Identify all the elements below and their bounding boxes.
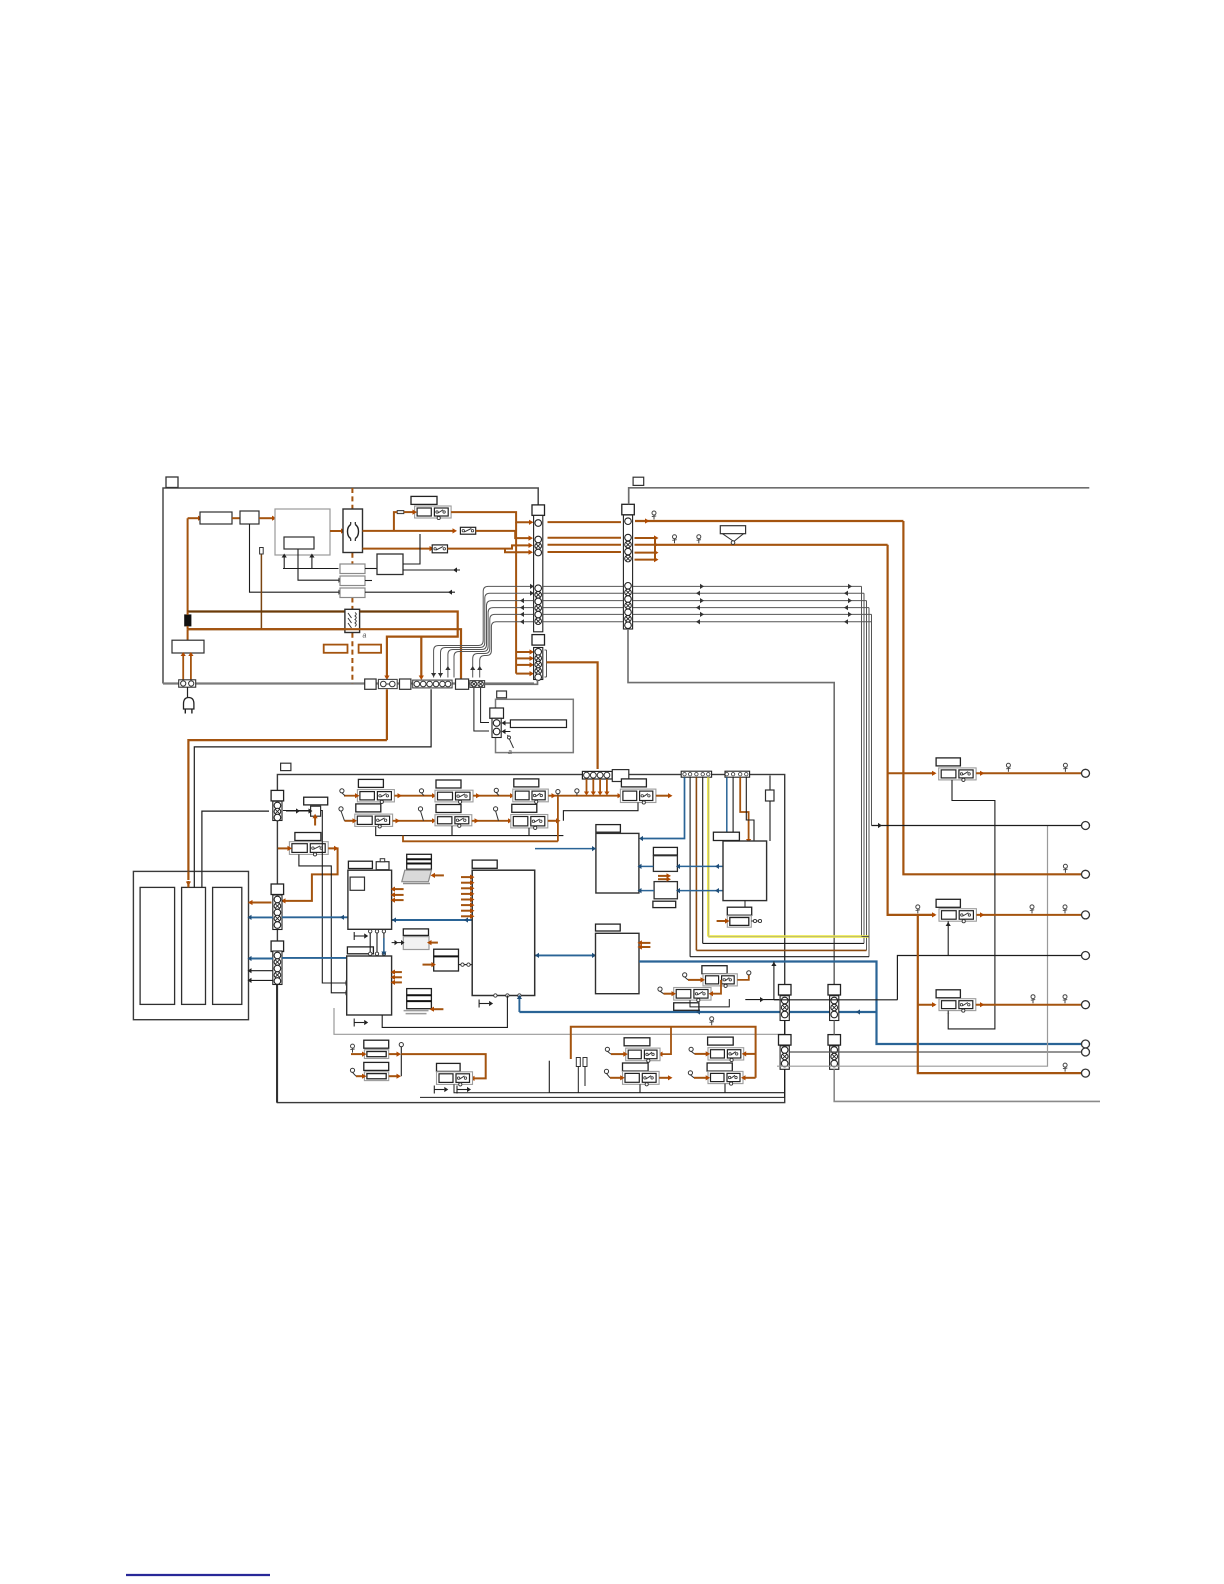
fuse F1 with label: [411, 496, 437, 504]
wire gray C2 bottom run: [628, 629, 834, 985]
module M2b (lower): [596, 933, 640, 993]
wire blue L1 to module C: [392, 919, 473, 921]
fuse F6: [356, 804, 381, 812]
blue arrow into L2: [383, 938, 385, 953]
wire riser into F1: [394, 512, 397, 531]
wire black terminal 825: [872, 825, 1082, 827]
fuse FE: [623, 1063, 649, 1071]
wire blue M2-IB: [639, 890, 654, 892]
terminal circles: [1082, 769, 1090, 777]
module L2: [347, 956, 392, 1015]
orange arrows into C left: [461, 876, 471, 878]
fusible element ahead of F1: [397, 511, 404, 514]
wire blue B2 down to M4: [726, 777, 728, 839]
wire black strip-A to battery: [202, 811, 269, 887]
strip B (left edge): [271, 884, 284, 895]
wire orange drop from row1: [557, 796, 559, 842]
strip D2 (outer): [828, 985, 841, 996]
wire brown B1 down: [695, 777, 697, 950]
fusible links small: [576, 1058, 580, 1067]
connector bar B0: [582, 771, 612, 779]
battery cell 3: [213, 887, 242, 1004]
battery pack outer box: [133, 871, 248, 1019]
resistor R1 top right: [769, 776, 771, 791]
wire bank outputs right: [365, 591, 455, 593]
wire F15 control: [947, 1010, 949, 1013]
interstage box IB: [654, 882, 677, 899]
interlock switch: [508, 735, 514, 748]
wire orange B2 down: [740, 777, 748, 839]
strip D (box right edge): [779, 985, 792, 996]
substrip feed stubs: [516, 651, 530, 653]
wire F12 control: [690, 999, 729, 1007]
wire A1-A2: [232, 517, 240, 519]
inner CPU box: [284, 537, 314, 549]
wire bus B drop to connector box: [188, 629, 461, 679]
wire black horizontal 943: [703, 942, 864, 944]
interstage box IA: [653, 847, 677, 855]
wire FH node: [400, 1047, 402, 1077]
svg-text:a: a: [363, 633, 367, 640]
wire orange collector y841: [403, 836, 558, 842]
wire F12 right feed: [713, 980, 721, 994]
module M2 (upper): [596, 833, 639, 893]
svg-text:a: a: [508, 749, 512, 756]
wire orange ring bottom: [571, 1027, 756, 1078]
charge port module: [172, 640, 204, 653]
capacitor block CB3: [407, 989, 432, 1009]
vertical sense wire with element: [260, 554, 262, 629]
six signal wires C1-C2: [543, 585, 623, 587]
strip E2 (outer): [828, 1035, 841, 1046]
wire F13 to terminal: [976, 772, 1081, 774]
wire blue riser into C: [518, 996, 520, 1013]
bracket symbols: [353, 932, 355, 940]
wire black B1 down: [689, 777, 691, 957]
wire K2 branch to strip: [448, 545, 529, 548]
wires from P6 to interlock: [474, 688, 489, 731]
wire yellow B1 down: [707, 777, 709, 936]
orange service boxes: [324, 645, 348, 653]
wire K1 to connector strip: [476, 531, 529, 538]
wire orange C1-C2 y538: [548, 537, 622, 539]
wire gray 1052 to terminal: [790, 1051, 1082, 1053]
wire F14 control: [947, 921, 949, 955]
fuse F11 mid: [702, 966, 727, 974]
wire blue M2b to terminal: [639, 962, 1082, 1045]
wire orange right drop 903: [903, 521, 1081, 874]
fuse FF: [708, 1037, 734, 1045]
wire black return to battery: [194, 689, 431, 887]
fuse FD: [624, 1038, 650, 1046]
connector bar B2: [725, 771, 750, 777]
strip links vertical: [784, 1021, 786, 1035]
arrows up into control block bottom: [283, 557, 285, 569]
fuse F7: [436, 805, 461, 813]
interlock wires: [504, 722, 511, 724]
wire orange right drop 887: [888, 545, 935, 915]
fuse F14 right: [936, 899, 960, 907]
fuse F12 mid: [674, 988, 711, 1001]
wire black B2 down: [732, 777, 734, 841]
fuse F3: [436, 780, 461, 788]
wire F11 out up: [737, 975, 749, 980]
stair corner joins: [862, 936, 869, 938]
six signal wires C1 left fan: [434, 586, 534, 677]
substrip C1b: [534, 648, 543, 680]
wire battery black pins: [249, 970, 274, 972]
wire blue strip B to module L1: [282, 916, 348, 918]
relay K2: [432, 545, 447, 553]
wire transformer to relay K1: [363, 530, 455, 532]
wire control to transformer: [330, 530, 343, 532]
AC inlet connector: [179, 680, 196, 687]
bar B0 side box: [612, 770, 629, 782]
main orange bus riser: [187, 518, 189, 611]
fuse FH left bottom: [364, 1040, 389, 1048]
wire gray 1066 up right: [777, 826, 1048, 1067]
wire A branch 2 drop: [420, 637, 422, 676]
wire transformer lower tap to relay K2: [363, 548, 432, 550]
orange merge bracket right of C2: [635, 537, 656, 539]
wire top frame: [629, 488, 1090, 505]
wire ring to FD: [661, 1027, 671, 1054]
wire orange run 2: [655, 544, 888, 546]
wire bank1 to module A4: [365, 568, 377, 570]
wire strip A control: [283, 811, 346, 984]
interlock connector cap: [490, 708, 504, 718]
six signal wires C2 to right stair: [633, 585, 862, 587]
fuse F13 right: [936, 758, 960, 766]
capacitor block CB1: [407, 854, 432, 869]
wire F4-F5: [548, 795, 620, 797]
module C (central): [472, 870, 535, 995]
fuse F2: [358, 779, 383, 787]
wire stair to terminal 825: [871, 614, 873, 825]
fuse F5: [621, 779, 646, 787]
black control wires to resistor bank: [250, 524, 339, 592]
fusible link (black): [185, 615, 191, 626]
wire orange feed to module A1: [188, 517, 200, 519]
fuse F8: [512, 804, 537, 812]
relay K1: [460, 527, 475, 534]
fuse row1 wire: [344, 795, 357, 797]
wire bottom left verticals: [420, 1093, 785, 1098]
fuse F10 below M3: [727, 907, 751, 915]
wire F9 to strip B: [286, 848, 338, 901]
contactor K3: [345, 609, 360, 632]
label square J4: [281, 763, 291, 770]
wire orange C1-C2 link y522: [548, 521, 622, 523]
wire gray bottom long: [834, 1069, 1100, 1101]
resistor bank box 3: [340, 588, 365, 598]
wire contactor output: [360, 610, 430, 612]
wire bus B: [188, 628, 345, 630]
fuse FI: [437, 1063, 461, 1071]
connector bar B1: [681, 771, 711, 777]
fuse F15 right: [936, 990, 960, 998]
wire orange C1-C2 y545: [548, 544, 622, 546]
module A4: [377, 554, 403, 575]
stair verticals down: [861, 586, 863, 936]
fuse F9 standalone: [295, 833, 321, 841]
wire orange FH to FI: [401, 1054, 485, 1078]
battery feed stubs inside box: [187, 871, 189, 880]
wire M3 bottom: [744, 901, 746, 907]
wire F15 to terminal: [976, 1004, 1082, 1006]
wire black terminal 955: [897, 956, 1081, 1000]
sensor funnel symbol: [720, 526, 745, 534]
pins L1-L2: [369, 929, 371, 956]
wire black B2 down 2: [746, 777, 754, 841]
battery cell 2: [182, 887, 206, 1004]
wire orange C1-C2 y552: [548, 551, 622, 553]
orange arrow pair IA-IB: [658, 875, 668, 877]
gray baseline of charger box: [163, 682, 534, 684]
wire blue long 1012: [519, 1011, 876, 1013]
strip C (left edge): [271, 941, 284, 952]
wire battery to strip B orange: [249, 902, 272, 904]
wire F6-F7: [393, 820, 435, 822]
wire bus B to charge port box: [187, 629, 189, 640]
resistor bank box 2: [340, 576, 365, 586]
power control outer box: [277, 775, 784, 1103]
orange arrows L1 right: [394, 888, 404, 890]
strip A (left edge): [271, 790, 284, 801]
label square J3: [497, 691, 507, 698]
module A5 near strip A: [304, 797, 328, 805]
wire battery blue: [249, 916, 274, 918]
wire black horizontal 957: [690, 956, 869, 958]
wire L2 to C bottom: [382, 996, 507, 1028]
wire battery link verticals: [276, 985, 278, 1103]
wire blue C to M2 upper: [535, 848, 596, 850]
interlock resistor label: [510, 720, 566, 728]
orange arrows into M2b right: [640, 942, 650, 944]
wire battery blue 2: [249, 958, 274, 960]
wire K2 branch 2 to strip: [505, 549, 529, 553]
wire gray mid horizontal: [334, 1008, 784, 1034]
wire black y1000 right strips: [774, 999, 898, 1001]
fuse FG: [707, 1063, 732, 1071]
fuse FJ left bottom 2: [364, 1062, 389, 1070]
wire orange branch down 917: [918, 915, 1082, 1073]
sub-circuit box (interlock): [496, 699, 574, 752]
wire black B1 down 2: [702, 777, 704, 943]
fuse symbol atop L1: [376, 862, 389, 870]
wire F3-F4: [473, 795, 513, 797]
footer rule: [126, 1574, 270, 1576]
bottom control bus: [639, 1084, 641, 1092]
wire F9 control: [299, 854, 346, 992]
wire orange F13 branch: [888, 772, 935, 774]
wire bus A to contactor: [188, 610, 345, 612]
fuse F4: [514, 779, 539, 787]
module M3 (right): [723, 841, 767, 901]
inline connector P4 (long): [413, 680, 452, 688]
wire into strip D: [745, 999, 779, 1001]
label square J1: [166, 477, 178, 488]
battery cell 1: [140, 887, 175, 1004]
wire blue M2-IA: [639, 865, 654, 867]
orange arrows L2 right: [394, 971, 402, 973]
transformer T1: [343, 509, 363, 553]
module C bottom pins: [494, 994, 497, 997]
wire F1 drop to lower substrip: [515, 522, 517, 673]
connector strip C2 (x=628): [622, 504, 635, 515]
wire F5 out: [656, 795, 670, 797]
connector strip C1 (x=538): [532, 505, 545, 516]
resistor bank box 1: [340, 564, 365, 574]
wire orange bus down-left to battery: [386, 689, 388, 740]
wire A drop to plug connectors: [387, 612, 458, 676]
module L1: [348, 870, 392, 929]
wire F7-F8: [472, 820, 511, 822]
wire F13 control: [948, 780, 995, 1029]
AC plug symbol: [184, 698, 194, 710]
wire yellow horizontal: [708, 935, 868, 937]
module M1 small: [403, 929, 428, 936]
inline connector P6: [470, 681, 485, 688]
wire arrow into collector: [433, 874, 444, 876]
wire A2 to control block: [259, 517, 275, 519]
wire brown horizontal 950: [696, 949, 866, 951]
bar B0 drops: [586, 779, 588, 792]
module A2: [240, 511, 259, 524]
charge port pins: [182, 653, 184, 680]
wire blue C to M2: [535, 954, 596, 956]
capacitor block CB2: [434, 949, 459, 971]
strip E (box right edge): [779, 1035, 792, 1046]
row interconnect blacks: [563, 803, 638, 821]
inline box P5: [456, 679, 469, 689]
HV battery charger unit outer box: [163, 488, 538, 684]
wire gray row to substrip: [485, 680, 538, 685]
wire A4 returns: [403, 534, 420, 564]
wire F2-F3: [394, 795, 435, 797]
wire F14 to terminal: [976, 914, 1081, 916]
wire orange main right run: [635, 520, 903, 522]
inline box P1: [365, 679, 376, 689]
control block (large): [275, 509, 330, 555]
label square J2: [633, 477, 644, 485]
wire blue B1 to module M3: [641, 777, 685, 838]
wire F1 to strip/substrip: [451, 512, 529, 522]
inline connector P2: [378, 679, 397, 688]
inline box P3: [400, 679, 411, 689]
wire orange substrip out to bar: [547, 662, 598, 769]
wire F8 out: [548, 820, 558, 822]
wire F15 feed: [918, 1004, 935, 1006]
module A1: [200, 512, 232, 524]
wire blue strip C run: [282, 957, 347, 959]
collector trapezoid: [402, 870, 432, 882]
orange dashed boundary line: [351, 488, 353, 509]
